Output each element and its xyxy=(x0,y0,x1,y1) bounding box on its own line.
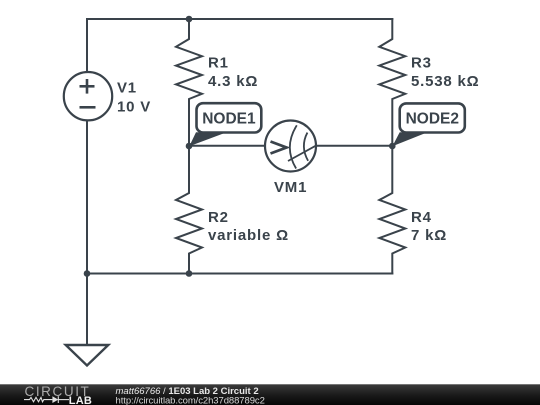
svg-text:variable Ω: variable Ω xyxy=(208,227,289,244)
svg-text:4.3 kΩ: 4.3 kΩ xyxy=(208,73,258,90)
svg-text:V1: V1 xyxy=(117,80,137,97)
svg-text:NODE2: NODE2 xyxy=(406,111,459,128)
svg-text:R2: R2 xyxy=(208,209,229,226)
svg-text:LAB: LAB xyxy=(69,395,92,405)
svg-text:R4: R4 xyxy=(411,209,432,226)
svg-text:NODE1: NODE1 xyxy=(202,110,256,127)
svg-text:http://circuitlab.com/c2h37d88: http://circuitlab.com/c2h37d88789c2 xyxy=(116,395,265,405)
svg-text:10 V: 10 V xyxy=(117,98,151,115)
svg-text:7 kΩ: 7 kΩ xyxy=(411,227,447,244)
svg-text:VM1: VM1 xyxy=(274,179,307,196)
svg-text:R1: R1 xyxy=(208,55,229,72)
svg-text:5.538 kΩ: 5.538 kΩ xyxy=(411,73,479,90)
svg-text:R3: R3 xyxy=(411,55,432,72)
